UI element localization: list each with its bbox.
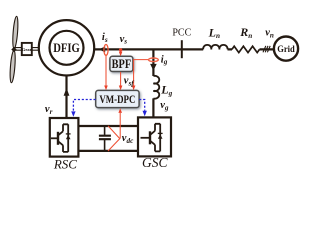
svg-text:Gear: Gear: [22, 47, 32, 52]
svg-text:PCC: PCC: [172, 28, 191, 39]
svg-text:Grid: Grid: [277, 45, 295, 55]
svg-text:GSC: GSC: [142, 155, 168, 170]
svg-text:RSC: RSC: [53, 157, 77, 172]
svg-text:DFIG: DFIG: [53, 40, 80, 55]
svg-text:VM-DPC: VM-DPC: [99, 94, 135, 106]
svg-text:BPF: BPF: [112, 57, 132, 71]
